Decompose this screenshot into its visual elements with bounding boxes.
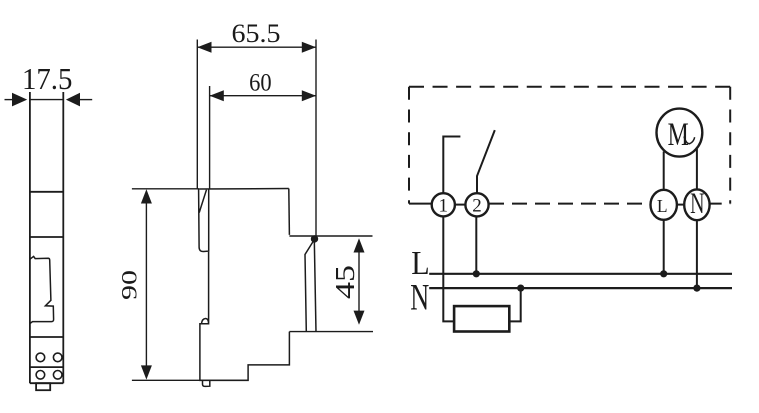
wire terminal L down to L rail <box>663 220 665 274</box>
node junction dot on 45 extension <box>311 235 318 242</box>
wire terminal 1 down to load <box>443 216 454 321</box>
svg-text:M: M <box>668 116 689 153</box>
front view terminal screw A1 <box>36 353 45 362</box>
front view terminal screw B1 <box>36 371 45 380</box>
svg-text:45: 45 <box>330 265 360 299</box>
svg-text:90: 90 <box>117 270 142 300</box>
side view outline <box>199 189 316 387</box>
dimension 45 bottom arrowhead <box>354 311 365 325</box>
svg-text:L: L <box>411 245 429 282</box>
front view divider 4 <box>30 366 63 368</box>
dimension 60 left arrowhead <box>210 90 224 101</box>
switch blade at terminal 2 <box>477 130 495 193</box>
front view right edge <box>62 92 64 383</box>
side view top edge <box>199 188 289 191</box>
terminal N <box>684 187 709 220</box>
dimension 60 <box>210 86 316 189</box>
terminal L <box>651 190 677 220</box>
front view DIN clip tab <box>36 383 50 390</box>
L rail wire <box>429 273 732 275</box>
wire load to N rail <box>509 288 520 321</box>
dimension 65.5 right arrowhead <box>302 42 316 53</box>
wire terminal 1 to terminal 2 <box>455 204 466 206</box>
front view divider 2 <box>30 236 63 238</box>
dimension 60 right arrowhead <box>302 90 316 101</box>
junction dot terminal L on L rail <box>660 270 667 277</box>
motor M1 <box>657 109 703 157</box>
svg-text:1: 1 <box>439 196 449 217</box>
wire terminal 2 down to L rail <box>475 216 477 273</box>
svg-text:60: 60 <box>249 70 272 97</box>
junction dot terminal 2 on L rail <box>473 270 480 277</box>
terminal 1 <box>432 193 455 216</box>
junction dot load on N rail <box>517 285 524 292</box>
wire terminal L to terminal N <box>677 204 684 206</box>
front view door outline <box>30 256 54 323</box>
front view bottom edge <box>30 382 63 384</box>
side view front flap <box>199 190 209 252</box>
side view terminal strip left edge <box>305 240 314 332</box>
wire box corner to terminal 1 <box>409 203 432 205</box>
side view right edge <box>288 189 291 235</box>
load resistor box <box>454 306 509 331</box>
front view divider 3 <box>30 336 63 338</box>
side view terminal strip right edge <box>314 240 316 332</box>
front view left edge <box>29 92 31 383</box>
dimension 90 top arrowhead <box>141 189 152 203</box>
svg-text:N: N <box>690 187 704 220</box>
dimension 45 top arrowhead <box>354 238 365 252</box>
dimension 17.5 right arrowhead <box>66 93 80 107</box>
front view terminal screw B2 <box>53 371 62 380</box>
side view lower step <box>200 252 290 381</box>
svg-text:2: 2 <box>472 196 482 217</box>
dimension 65.5 <box>197 40 316 240</box>
junction dot terminal N on N rail <box>693 285 700 292</box>
wire stub above terminal 1 <box>443 137 460 194</box>
svg-text:65.5: 65.5 <box>232 19 281 48</box>
schematic dashed enclosure <box>409 87 730 204</box>
dimension 17.5 <box>5 99 93 101</box>
terminal 2 <box>465 193 488 216</box>
wire motor to terminal L <box>663 152 665 190</box>
dimension 65.5 left arrowhead <box>197 42 211 53</box>
front view terminal screw A2 <box>53 353 62 362</box>
wire terminal N down to N rail <box>696 220 698 288</box>
dimension 90 bottom arrowhead <box>141 365 152 379</box>
N rail wire <box>429 287 732 289</box>
svg-text:N: N <box>410 277 429 317</box>
front view divider 1 <box>30 191 63 193</box>
svg-text:17.5: 17.5 <box>22 61 73 96</box>
wire motor to terminal N <box>696 149 698 189</box>
dimension 17.5 left arrowhead <box>12 93 27 107</box>
side view bottom foot <box>203 380 210 386</box>
svg-text:L: L <box>657 196 668 216</box>
dimension 90 <box>132 189 249 380</box>
dimension 45 <box>289 236 373 332</box>
